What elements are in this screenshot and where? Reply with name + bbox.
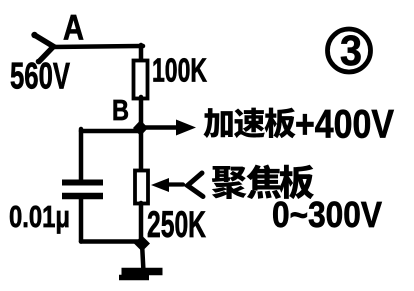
svg-text:+400V: +400V: [295, 103, 394, 147]
wire: bottom node to ground: [142, 243, 144, 272]
svg-text:0~300V: 0~300V: [272, 194, 382, 235]
capacitor C1 0.01u top plate: [62, 180, 103, 186]
wire: R1 bottom to node B: [139, 97, 144, 127]
svg-text:3: 3: [340, 27, 362, 75]
ground symbol bar 2: [119, 275, 149, 281]
label 聚焦板 (focus plate) glyph paths: [212, 165, 314, 200]
svg-text:B: B: [112, 95, 129, 127]
svg-text:100K: 100K: [152, 52, 207, 89]
wire: capacitor branch vertical down: [79, 129, 84, 181]
focus connector open arrow: [188, 173, 204, 197]
wire: corner down to resistor R1: [139, 45, 144, 62]
wire: bottom rail to node: [81, 239, 142, 244]
svg-text:560V: 560V: [10, 56, 70, 97]
resistor R1 100K body: [134, 61, 148, 99]
svg-text:250K: 250K: [147, 204, 206, 245]
potentiometer wiper tail: [167, 182, 183, 186]
wire: node B to accelerator arrow: [141, 125, 178, 130]
svg-text:0.01μ: 0.01μ: [9, 199, 70, 234]
arrowhead to accelerator plate: [176, 120, 196, 136]
wire: R2 bottom to bottom node: [139, 203, 144, 242]
figure number 3 circle: [328, 29, 371, 72]
wire: node B left toward capacitor branch: [81, 129, 141, 134]
wire: node B down to resistor R2: [139, 128, 144, 171]
bottom node junction dot: [134, 236, 150, 252]
potentiometer wiper arrowhead: [151, 178, 169, 192]
resistor R2 250K body: [135, 171, 148, 204]
wire: capacitor bottom down: [79, 197, 84, 242]
node B junction dot: [133, 120, 148, 136]
ground symbol bar 1: [122, 268, 163, 276]
wire: node A horizontal to R1 branch: [52, 46, 143, 47]
svg-text:A: A: [63, 9, 84, 48]
capacitor C1 0.01u bottom plate: [62, 193, 103, 200]
input connector arrowhead at node A (560V input): [35, 35, 54, 62]
label 加速板 (accelerator plate) glyph paths: [203, 108, 295, 139]
